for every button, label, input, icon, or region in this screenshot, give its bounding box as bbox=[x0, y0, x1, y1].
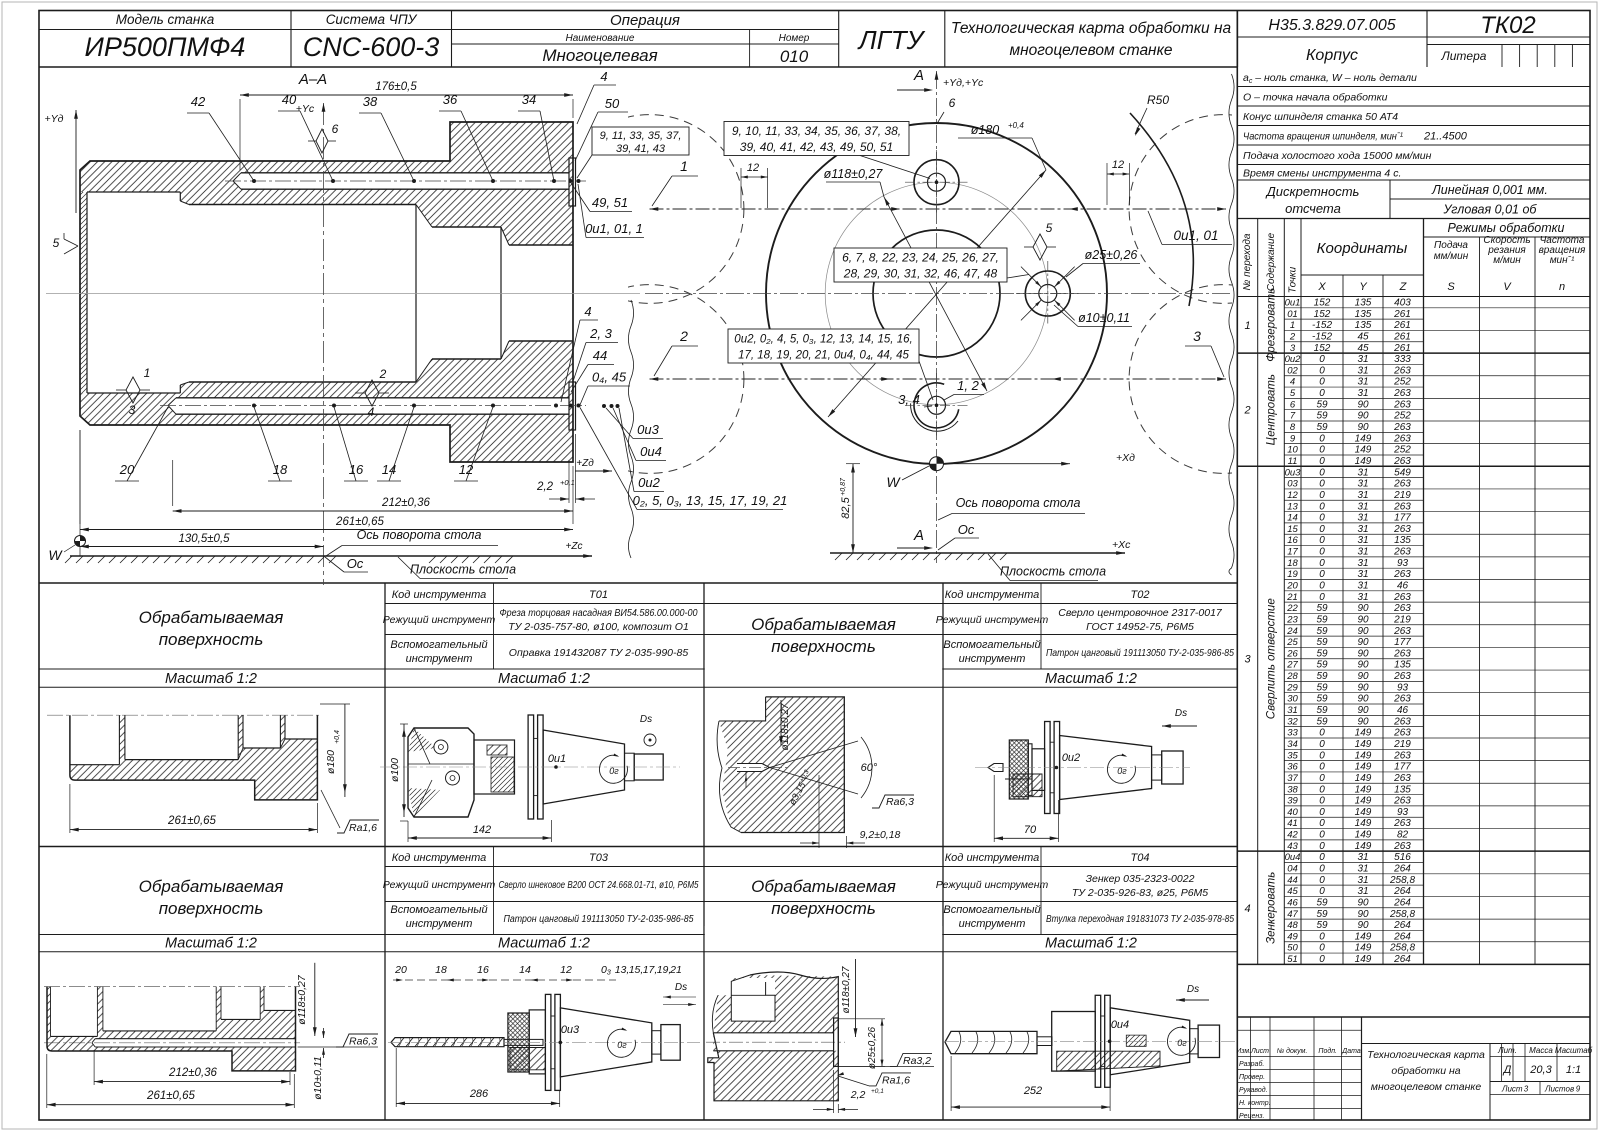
svg-text:263: 263 bbox=[1393, 671, 1411, 682]
svg-text:44: 44 bbox=[593, 348, 607, 363]
svg-text:263: 263 bbox=[1393, 569, 1411, 580]
svg-text:2,2: 2,2 bbox=[536, 481, 554, 493]
svg-text:261: 261 bbox=[1393, 343, 1411, 354]
title block bbox=[1237, 1016, 1590, 1018]
svg-text:Обрабатываемая: Обрабатываемая bbox=[751, 877, 896, 896]
table plane ground left bbox=[70, 555, 592, 557]
T02 center drill tool bbox=[975, 708, 1197, 842]
travel line Y135 bbox=[650, 208, 1227, 210]
svg-text:0: 0 bbox=[1319, 807, 1325, 818]
svg-text:Модель станка: Модель станка bbox=[116, 12, 215, 27]
svg-text:1: 1 bbox=[1290, 320, 1295, 331]
svg-text:31: 31 bbox=[1357, 501, 1368, 512]
svg-text:31: 31 bbox=[1357, 886, 1368, 897]
svg-text:№ докум.: № докум. bbox=[1277, 1047, 1308, 1055]
svg-text:0: 0 bbox=[1319, 490, 1325, 501]
+Zd axis bbox=[575, 470, 612, 472]
svg-text:2: 2 bbox=[1243, 405, 1250, 417]
svg-text:Дата: Дата bbox=[1341, 1048, 1361, 1055]
dim 12 right bbox=[1106, 163, 1108, 205]
svg-text:5: 5 bbox=[1290, 388, 1296, 399]
svg-text:0: 0 bbox=[1319, 467, 1325, 478]
svg-text:инструмент: инструмент bbox=[406, 653, 473, 665]
svg-text:0: 0 bbox=[1319, 581, 1325, 592]
svg-text:Точки: Точки bbox=[1288, 266, 1299, 293]
svg-text:инструмент: инструмент bbox=[959, 653, 1026, 665]
svg-text:261: 261 bbox=[1393, 320, 1411, 331]
svg-text:Dѕ: Dѕ bbox=[675, 982, 687, 993]
svg-text:1: 1 bbox=[1244, 320, 1250, 332]
svg-text:Ос: Ос bbox=[958, 522, 975, 537]
svg-text:Разраб.: Разраб. bbox=[1239, 1060, 1264, 1068]
svg-text:0г: 0г bbox=[617, 1040, 627, 1050]
svg-text:ИР500ПМФ4: ИР500ПМФ4 bbox=[85, 32, 246, 62]
svg-text:2: 2 bbox=[379, 367, 387, 381]
svg-text:264: 264 bbox=[1393, 920, 1411, 931]
svg-text:403: 403 bbox=[1394, 298, 1411, 309]
svg-text:90: 90 bbox=[1357, 399, 1369, 410]
svg-text:135: 135 bbox=[1394, 784, 1411, 795]
R50 arc bbox=[1130, 113, 1193, 306]
svg-text:Масштаб 1:2: Масштаб 1:2 bbox=[1045, 936, 1137, 952]
svg-text:26: 26 bbox=[1286, 648, 1298, 659]
svg-text:4: 4 bbox=[600, 69, 607, 84]
svg-text:135: 135 bbox=[1394, 535, 1411, 546]
svg-text:31: 31 bbox=[1357, 547, 1368, 558]
svg-text:90: 90 bbox=[1357, 671, 1369, 682]
svg-text:149: 149 bbox=[1355, 456, 1372, 467]
svg-text:31: 31 bbox=[1357, 875, 1368, 886]
svg-text:9, 11, 33, 35, 37,: 9, 11, 33, 35, 37, bbox=[600, 130, 682, 142]
svg-text:ТК02: ТК02 bbox=[1480, 12, 1536, 39]
svg-text:90: 90 bbox=[1357, 682, 1369, 693]
svg-text:263: 263 bbox=[1393, 479, 1411, 490]
coordinate table rows bbox=[1284, 307, 1423, 309]
svg-text:8: 8 bbox=[1290, 422, 1296, 433]
svg-text:252: 252 bbox=[1023, 1085, 1042, 1097]
svg-text:59: 59 bbox=[1316, 694, 1328, 705]
svg-text:51: 51 bbox=[1287, 954, 1298, 965]
svg-text:13: 13 bbox=[1287, 501, 1298, 512]
svg-text:149: 149 bbox=[1355, 773, 1372, 784]
svg-text:3, 4: 3, 4 bbox=[898, 392, 920, 407]
svg-text:0: 0 bbox=[1319, 739, 1325, 750]
machined surface panel A2 detail bbox=[717, 697, 914, 848]
svg-text:0и4: 0и4 bbox=[1285, 852, 1301, 863]
svg-text:9, 10, 11, 33, 34, 35, 36, 37,: 9, 10, 11, 33, 34, 35, 36, 37, 38, bbox=[732, 124, 901, 138]
svg-text:S: S bbox=[1447, 281, 1455, 293]
left view hatched section bbox=[80, 122, 573, 245]
svg-text:31: 31 bbox=[1357, 581, 1368, 592]
svg-text:ТУ 2-035-926-83, ø25, Р6М5: ТУ 2-035-926-83, ø25, Р6М5 bbox=[1072, 887, 1208, 899]
discreteness block bbox=[1237, 218, 1590, 220]
svg-text:0: 0 bbox=[1319, 377, 1325, 388]
svg-text:0: 0 bbox=[1319, 784, 1325, 795]
callout box lower bbox=[728, 329, 919, 363]
svg-text:5: 5 bbox=[1046, 221, 1053, 235]
svg-text:38: 38 bbox=[363, 94, 378, 109]
svg-text:Лит.: Лит. bbox=[1497, 1046, 1517, 1055]
svg-text:261: 261 bbox=[1393, 309, 1411, 320]
svg-text:0: 0 bbox=[1319, 433, 1325, 444]
svg-text:Время смены инструмента 4 с.: Время смены инструмента 4 с. bbox=[1243, 167, 1401, 179]
svg-text:135: 135 bbox=[1355, 298, 1372, 309]
svg-text:Корпус: Корпус bbox=[1306, 47, 1358, 64]
svg-text:ТУ 2-035-757-80, ø100, компози: ТУ 2-035-757-80, ø100, композит О1 bbox=[508, 621, 689, 633]
svg-text:149: 149 bbox=[1355, 784, 1372, 795]
svg-text:+Xс: +Xс bbox=[1112, 539, 1131, 551]
drilled hole bottom bbox=[176, 397, 569, 399]
machined surface panel B1 bbox=[44, 963, 378, 1108]
svg-text:CNC-600-3: CNC-600-3 bbox=[303, 32, 440, 62]
svg-text:1:1: 1:1 bbox=[1566, 1064, 1581, 1076]
svg-text:516: 516 bbox=[1394, 852, 1411, 863]
svg-text:Лист: Лист bbox=[1501, 1085, 1523, 1094]
svg-text:О – точка начала обработки: О – точка начала обработки bbox=[1243, 91, 1388, 103]
svg-text:ø25±0,26: ø25±0,26 bbox=[1085, 248, 1138, 262]
svg-text:Режущий инструмент: Режущий инструмент bbox=[383, 879, 496, 891]
svg-text:поверхность: поверхность bbox=[771, 899, 876, 918]
svg-text:252: 252 bbox=[1393, 445, 1411, 456]
svg-text:135: 135 bbox=[1355, 309, 1372, 320]
svg-text:Операция: Операция bbox=[610, 12, 680, 29]
svg-text:Ос: Ос bbox=[347, 556, 364, 571]
svg-text:0: 0 bbox=[1319, 750, 1325, 761]
svg-text:149: 149 bbox=[1355, 750, 1372, 761]
svg-text:Масштаб 1:2: Масштаб 1:2 bbox=[498, 936, 590, 952]
svg-text:90: 90 bbox=[1357, 909, 1369, 920]
svg-text:2, 3: 2, 3 bbox=[589, 326, 612, 341]
svg-text:130,5±0,5: 130,5±0,5 bbox=[178, 533, 230, 545]
svg-text:Масштаб 1:2: Масштаб 1:2 bbox=[165, 936, 257, 952]
svg-text:149: 149 bbox=[1355, 954, 1372, 965]
svg-text:ГОСТ 14952-75, Р6М5: ГОСТ 14952-75, Р6М5 bbox=[1086, 621, 1194, 633]
svg-text:31: 31 bbox=[1357, 592, 1368, 603]
svg-text:2,2: 2,2 bbox=[850, 1089, 866, 1101]
tool path dashed circles bbox=[555, 115, 1318, 474]
svg-text:23: 23 bbox=[1286, 614, 1298, 625]
svg-text:17, 18, 19, 20, 21, 0и4, 0₄, 4: 17, 18, 19, 20, 21, 0и4, 0₄, 44, 45 bbox=[738, 350, 909, 362]
svg-text:90: 90 bbox=[1357, 660, 1369, 671]
svg-text:149: 149 bbox=[1355, 728, 1372, 739]
svg-text:36: 36 bbox=[1287, 762, 1298, 773]
dim 261 bbox=[80, 529, 573, 531]
svg-text:12: 12 bbox=[560, 964, 572, 976]
svg-text:31: 31 bbox=[1357, 524, 1368, 535]
svg-text:7: 7 bbox=[1290, 411, 1296, 422]
svg-text:Код инструмента: Код инструмента bbox=[392, 852, 487, 864]
svg-text:549: 549 bbox=[1394, 467, 1411, 478]
svg-text:Dѕ: Dѕ bbox=[1187, 984, 1199, 995]
svg-text:ø118±0,27: ø118±0,27 bbox=[824, 167, 884, 181]
svg-text:№ перехода: № перехода bbox=[1242, 233, 1253, 290]
svg-text:W: W bbox=[48, 547, 63, 563]
svg-text:0: 0 bbox=[1319, 931, 1325, 942]
svg-text:Т04: Т04 bbox=[1131, 852, 1150, 864]
svg-text:ø118±0,27: ø118±0,27 bbox=[780, 703, 791, 750]
W datum left bbox=[79, 430, 81, 556]
dim 212 bbox=[173, 510, 573, 512]
svg-text:12: 12 bbox=[1112, 159, 1124, 171]
svg-text:34: 34 bbox=[1287, 739, 1298, 750]
svg-text:39, 41, 43: 39, 41, 43 bbox=[616, 143, 666, 155]
svg-text:R50: R50 bbox=[1147, 93, 1169, 107]
svg-text:ø118±0,27: ø118±0,27 bbox=[296, 974, 308, 1025]
svg-text:59: 59 bbox=[1316, 671, 1328, 682]
svg-text:149: 149 bbox=[1355, 830, 1372, 841]
svg-text:Зенкеровать: Зенкеровать bbox=[1266, 872, 1278, 944]
svg-text:3: 3 bbox=[1193, 328, 1201, 344]
svg-text:Наименование: Наименование bbox=[565, 33, 634, 44]
svg-text:Режущий инструмент: Режущий инструмент bbox=[936, 879, 1049, 891]
drilled hole top bbox=[241, 172, 569, 174]
svg-text:263: 263 bbox=[1393, 399, 1411, 410]
svg-text:3: 3 bbox=[1290, 343, 1296, 354]
svg-text:Z: Z bbox=[1399, 281, 1408, 293]
svg-text:12: 12 bbox=[1287, 490, 1298, 501]
svg-text:19,: 19, bbox=[657, 964, 672, 976]
svg-text:поверхность: поверхность bbox=[771, 637, 876, 656]
svg-text:177: 177 bbox=[1394, 637, 1411, 648]
svg-text:90: 90 bbox=[1357, 648, 1369, 659]
svg-text:59: 59 bbox=[1316, 682, 1328, 693]
svg-text:263: 263 bbox=[1393, 694, 1411, 705]
svg-text:263: 263 bbox=[1393, 818, 1411, 829]
svg-text:90: 90 bbox=[1357, 716, 1369, 727]
svg-text:Частота вращения шпинделя, мин: Частота вращения шпинделя, минˉ¹ bbox=[1243, 130, 1403, 142]
svg-text:46: 46 bbox=[1397, 581, 1409, 592]
svg-text:263: 263 bbox=[1393, 750, 1411, 761]
svg-text:263: 263 bbox=[1393, 716, 1411, 727]
svg-text:149: 149 bbox=[1355, 841, 1372, 852]
svg-text:-152: -152 bbox=[1312, 320, 1332, 331]
svg-text:135: 135 bbox=[1394, 660, 1411, 671]
bottom panel grid bbox=[39, 582, 1237, 584]
svg-text:0и3: 0и3 bbox=[1285, 467, 1302, 478]
svg-text:31: 31 bbox=[1357, 377, 1368, 388]
svg-text:263: 263 bbox=[1393, 365, 1411, 376]
svg-text:59: 59 bbox=[1316, 705, 1328, 716]
svg-text:+Xд: +Xд bbox=[1116, 452, 1135, 464]
svg-text:+0,1: +0,1 bbox=[871, 1088, 884, 1095]
svg-text:2: 2 bbox=[1289, 331, 1296, 342]
svg-text:Вспомогательный: Вспомогательный bbox=[390, 904, 487, 916]
svg-text:261±0,65: 261±0,65 bbox=[146, 1090, 195, 1102]
svg-text:41: 41 bbox=[1287, 818, 1298, 829]
svg-text:40: 40 bbox=[1287, 807, 1298, 818]
svg-text:А: А bbox=[913, 527, 924, 544]
svg-text:Подп.: Подп. bbox=[1318, 1047, 1337, 1055]
svg-text:Код инструмента: Код инструмента bbox=[945, 852, 1040, 864]
svg-text:59: 59 bbox=[1316, 422, 1328, 433]
dim 12 left bbox=[740, 168, 742, 208]
svg-text:40: 40 bbox=[282, 92, 297, 107]
svg-text:263: 263 bbox=[1393, 648, 1411, 659]
svg-text:Ось поворота стола: Ось поворота стола bbox=[357, 528, 482, 542]
svg-text:149: 149 bbox=[1355, 818, 1372, 829]
svg-text:3: 3 bbox=[129, 403, 136, 417]
svg-text:0: 0 bbox=[1319, 501, 1325, 512]
svg-text:39: 39 bbox=[1287, 796, 1298, 807]
svg-text:31: 31 bbox=[1357, 467, 1368, 478]
outer circle bbox=[766, 123, 1107, 464]
svg-text:149: 149 bbox=[1355, 807, 1372, 818]
svg-text:31: 31 bbox=[1357, 513, 1368, 524]
svg-text:48: 48 bbox=[1287, 920, 1298, 931]
svg-text:м/мин: м/мин bbox=[1493, 255, 1521, 266]
svg-text:11: 11 bbox=[1288, 456, 1298, 467]
svg-text:Н35.3.829.07.005: Н35.3.829.07.005 bbox=[1268, 17, 1395, 34]
svg-text:5: 5 bbox=[53, 236, 60, 250]
svg-text:1: 1 bbox=[144, 366, 151, 380]
svg-text:Зенкер 035-2323-0022: Зенкер 035-2323-0022 bbox=[1086, 873, 1195, 885]
svg-text:20: 20 bbox=[1286, 581, 1298, 592]
svg-text:20: 20 bbox=[119, 462, 135, 477]
svg-text:Рукавод.: Рукавод. bbox=[1239, 1086, 1268, 1094]
svg-text:39, 40, 41, 42, 43, 49, 50, 51: 39, 40, 41, 42, 43, 49, 50, 51 bbox=[740, 140, 893, 154]
svg-text:Dѕ: Dѕ bbox=[640, 714, 652, 725]
svg-text:Плоскость стола: Плоскость стола bbox=[1000, 565, 1106, 579]
svg-text:Масштаб 1:2: Масштаб 1:2 bbox=[1045, 671, 1137, 687]
svg-text:21..4500: 21..4500 bbox=[1423, 131, 1468, 143]
svg-text:60°: 60° bbox=[861, 762, 878, 774]
T04 zenker tool bbox=[945, 984, 1235, 1111]
svg-text:0и3: 0и3 bbox=[561, 1024, 580, 1036]
svg-text:152: 152 bbox=[1314, 309, 1331, 320]
svg-text:33: 33 bbox=[1287, 728, 1298, 739]
svg-text:Патрон цанговый 191113050 ТУ-2: Патрон цанговый 191113050 ТУ-2-035-986-8… bbox=[1046, 647, 1234, 659]
svg-text:212±0,36: 212±0,36 bbox=[168, 1067, 217, 1079]
svg-text:0и1, 01, 1: 0и1, 01, 1 bbox=[585, 221, 643, 236]
svg-text:252: 252 bbox=[1393, 411, 1411, 422]
svg-text:149: 149 bbox=[1355, 445, 1372, 456]
svg-text:поверхность: поверхность bbox=[159, 899, 264, 918]
svg-text:149: 149 bbox=[1355, 739, 1372, 750]
svg-text:Вспомогательный: Вспомогательный bbox=[390, 639, 487, 651]
svg-text:59: 59 bbox=[1316, 411, 1328, 422]
svg-text:14: 14 bbox=[1287, 513, 1298, 524]
svg-text:90: 90 bbox=[1357, 694, 1369, 705]
svg-text:0: 0 bbox=[1319, 864, 1325, 875]
svg-text:142: 142 bbox=[473, 824, 491, 836]
svg-text:Обрабатываемая: Обрабатываемая bbox=[139, 608, 284, 627]
svg-text:59: 59 bbox=[1316, 716, 1328, 727]
svg-text:34: 34 bbox=[522, 92, 536, 107]
svg-text:149: 149 bbox=[1355, 762, 1372, 773]
svg-text:+Zс: +Zс bbox=[566, 541, 583, 552]
svg-text:-152: -152 bbox=[1312, 331, 1332, 342]
svg-text:0₂, 5, 0₃, 13, 15, 17, 19, 21: 0₂, 5, 0₃, 13, 15, 17, 19, 21 bbox=[633, 493, 788, 508]
svg-text:31: 31 bbox=[1357, 388, 1368, 399]
dia 118 dimension diagonal bbox=[884, 197, 987, 391]
svg-text:0: 0 bbox=[1319, 818, 1325, 829]
svg-text:поверхность: поверхность bbox=[159, 630, 264, 649]
svg-text:219: 219 bbox=[1393, 614, 1411, 625]
svg-text:90: 90 bbox=[1357, 920, 1369, 931]
svg-text:ø180: ø180 bbox=[971, 123, 1000, 137]
svg-text:44: 44 bbox=[1287, 875, 1298, 886]
svg-text:3: 3 bbox=[1244, 654, 1251, 666]
svg-text:+0,87: +0,87 bbox=[840, 477, 847, 496]
svg-text:0: 0 bbox=[1319, 943, 1325, 954]
svg-text:Фреза торцовая насадная ВИ54.5: Фреза торцовая насадная ВИ54.586.00.000-… bbox=[500, 607, 698, 619]
dim 82.5 bbox=[852, 464, 854, 553]
svg-text:Листов: Листов bbox=[1544, 1085, 1574, 1094]
svg-text:Номер: Номер bbox=[779, 33, 810, 44]
svg-text:6: 6 bbox=[332, 122, 339, 136]
svg-text:93: 93 bbox=[1397, 807, 1409, 818]
svg-text:многоцелевом станке: многоцелевом станке bbox=[1009, 42, 1172, 59]
+Yd axis left bbox=[75, 110, 77, 213]
svg-text:0г: 0г bbox=[1177, 1038, 1187, 1048]
svg-text:0: 0 bbox=[1319, 479, 1325, 490]
svg-text:+0,1: +0,1 bbox=[560, 478, 575, 487]
top surface leaders 42 40 38 36 34 bbox=[187, 112, 209, 114]
svg-text:Дискретность: Дискретность bbox=[1265, 184, 1360, 199]
dim 130.5 bbox=[80, 546, 324, 548]
svg-text:Y: Y bbox=[1359, 281, 1367, 293]
svg-text:90: 90 bbox=[1357, 637, 1369, 648]
svg-text:12: 12 bbox=[747, 162, 759, 174]
svg-text:04: 04 bbox=[1287, 864, 1298, 875]
svg-text:264: 264 bbox=[1393, 864, 1411, 875]
svg-text:4: 4 bbox=[1290, 377, 1295, 388]
svg-text:82: 82 bbox=[1397, 830, 1409, 841]
part outline bbox=[80, 122, 573, 462]
svg-text:24: 24 bbox=[1286, 626, 1298, 637]
svg-text:59: 59 bbox=[1316, 920, 1328, 931]
svg-text:152: 152 bbox=[1314, 343, 1331, 354]
svg-text:Dѕ: Dѕ bbox=[1175, 708, 1187, 719]
svg-text:219: 219 bbox=[1393, 739, 1411, 750]
machined surface panel B2 detail bbox=[706, 959, 934, 1113]
svg-text:0: 0 bbox=[1319, 354, 1325, 365]
svg-text:59: 59 bbox=[1316, 637, 1328, 648]
svg-text:149: 149 bbox=[1355, 796, 1372, 807]
svg-text:0: 0 bbox=[1319, 592, 1325, 603]
svg-text:0: 0 bbox=[1319, 762, 1325, 773]
svg-text:21: 21 bbox=[669, 964, 682, 976]
svg-text:0: 0 bbox=[1319, 875, 1325, 886]
svg-text:0: 0 bbox=[1319, 535, 1325, 546]
svg-text:258,8: 258,8 bbox=[1389, 909, 1415, 920]
svg-text:152: 152 bbox=[1314, 298, 1331, 309]
svg-text:0: 0 bbox=[1319, 886, 1325, 897]
svg-text:0: 0 bbox=[1319, 773, 1325, 784]
svg-text:0: 0 bbox=[1319, 445, 1325, 456]
svg-text:0и1: 0и1 bbox=[548, 753, 566, 765]
svg-text:261±0,65: 261±0,65 bbox=[167, 815, 216, 827]
svg-text:263: 263 bbox=[1393, 773, 1411, 784]
diamond 5 bbox=[1033, 234, 1047, 260]
svg-text:Технологическая карта: Технологическая карта bbox=[1367, 1049, 1485, 1061]
svg-text:176±0,5: 176±0,5 bbox=[375, 81, 417, 93]
svg-text:Т01: Т01 bbox=[589, 589, 608, 601]
svg-text:263: 263 bbox=[1393, 456, 1411, 467]
svg-text:Код инструмента: Код инструмента bbox=[392, 589, 487, 601]
svg-text:0: 0 bbox=[1319, 365, 1325, 376]
svg-text:31: 31 bbox=[1357, 569, 1368, 580]
svg-text:02: 02 bbox=[1287, 365, 1298, 376]
svg-text:263: 263 bbox=[1393, 524, 1411, 535]
svg-text:инструмент: инструмент bbox=[406, 918, 473, 930]
svg-text:Масса: Масса bbox=[1529, 1046, 1553, 1055]
svg-text:47: 47 bbox=[1287, 909, 1298, 920]
svg-text:6: 6 bbox=[1290, 399, 1296, 410]
svg-text:14: 14 bbox=[382, 462, 396, 477]
svg-text:0: 0 bbox=[1319, 456, 1325, 467]
svg-text:15: 15 bbox=[1287, 524, 1298, 535]
